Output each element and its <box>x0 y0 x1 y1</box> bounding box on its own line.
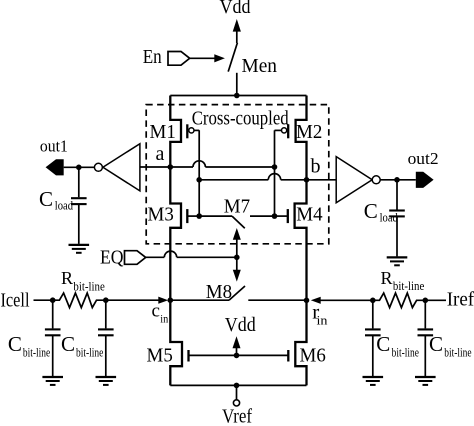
wire node b line left <box>199 179 268 181</box>
transistor M1 body <box>170 96 181 168</box>
wire hop over M2 gate drop <box>268 174 280 180</box>
wire to ground 1 <box>52 335 54 376</box>
wire bottom rail <box>170 384 306 386</box>
transistor M4 gate bar <box>287 209 289 223</box>
svg-text:Cross-coupled: Cross-coupled <box>192 108 289 129</box>
switch M8 blade <box>229 286 245 300</box>
capacitor C_bit-line 1 wire <box>52 300 54 328</box>
wire node a line left <box>140 166 193 168</box>
svg-text:bit-line: bit-line <box>23 344 50 359</box>
junction node a <box>168 164 174 170</box>
svg-text:Vdd: Vdd <box>225 314 256 336</box>
wire to ground 2 <box>105 335 107 376</box>
svg-text:bit-line: bit-line <box>393 278 425 293</box>
svg-text:R: R <box>381 268 393 288</box>
arrowhead into c_in <box>158 297 168 304</box>
wire Icell <box>34 299 53 301</box>
transistor M4 body <box>295 180 307 300</box>
transistor M5 body <box>170 300 182 385</box>
svg-text:M7: M7 <box>224 196 250 218</box>
ground (C_bit-line 2) <box>96 377 117 385</box>
capacitor C_bit-line 4 <box>418 329 434 335</box>
resistor R_bit-line left <box>53 293 106 308</box>
ground (C_bit-line 3) <box>363 377 384 385</box>
svg-text:M6: M6 <box>300 345 326 367</box>
wire C_load right to ground <box>396 216 398 256</box>
output port out2 <box>416 172 434 188</box>
arrowhead into r_in <box>311 297 321 304</box>
svg-text:C: C <box>364 199 378 223</box>
inverter right bubble <box>372 176 380 184</box>
transistor M3 body <box>170 167 181 300</box>
transistor M2 gate bar <box>287 124 289 138</box>
svg-text:Icell: Icell <box>1 290 30 312</box>
wire Vdd mid arrow shaft <box>236 348 238 355</box>
svg-text:load: load <box>380 209 399 224</box>
transistor M6 body <box>295 300 306 385</box>
junction bottom rail <box>234 383 240 389</box>
transistor M5 gate bar <box>187 350 189 362</box>
svg-text:M2: M2 <box>296 121 322 143</box>
junction right R a <box>370 298 376 304</box>
wire gate line M5-M6 <box>189 354 289 356</box>
wire M2-gate drop (node a riser) <box>274 130 276 216</box>
svg-text:C: C <box>61 332 75 356</box>
svg-text:b: b <box>311 156 321 178</box>
resistor R_bit-line right <box>373 293 426 308</box>
svg-text:M3: M3 <box>148 203 174 225</box>
junction node b / M1 gate <box>196 177 202 183</box>
wire M2 gate lead <box>275 129 282 131</box>
capacitor C_bit-line 2 wire <box>105 300 107 328</box>
wire hop over M1 gate drop <box>193 161 205 167</box>
switch Men blade <box>228 43 237 72</box>
svg-text:C: C <box>429 332 443 356</box>
capacitor C_bit-line 4 wire <box>424 300 426 328</box>
wire bubble to out2 <box>380 179 416 181</box>
transistor M6 gate bar <box>287 350 289 362</box>
svg-text:out1: out1 <box>40 137 68 156</box>
junction M7/M3 gate <box>196 213 202 219</box>
svg-text:C: C <box>39 187 53 211</box>
wire M3 gate lead <box>187 215 199 217</box>
wire r_in to right R <box>320 299 373 301</box>
svg-text:bit-line: bit-line <box>73 278 105 293</box>
arrowhead to Vdd <box>233 19 241 32</box>
inverter right triangle <box>336 157 372 203</box>
wire node b line right <box>281 179 337 181</box>
transistor M3 gate bar <box>186 209 188 223</box>
wire EQ left <box>146 256 165 258</box>
svg-text:M1: M1 <box>150 121 176 143</box>
arrowhead up to M7 <box>233 228 241 240</box>
junction node b <box>304 177 310 183</box>
svg-text:bit-line: bit-line <box>392 344 419 359</box>
svg-text:out2: out2 <box>408 149 439 168</box>
ground (C_load right) <box>387 257 408 265</box>
svg-text:in: in <box>160 311 168 325</box>
ground (C_bit-line 1) <box>42 377 63 385</box>
ground (C_load left) <box>69 245 90 253</box>
wire node a line right <box>205 166 274 168</box>
junction out2 <box>394 177 400 183</box>
wire to ground 4 <box>424 335 426 376</box>
svg-text:Vdd: Vdd <box>220 0 251 18</box>
output port out1 <box>46 159 64 175</box>
junction rail/Men <box>234 93 240 99</box>
junction left R a <box>50 297 56 303</box>
wire M1-gate drop (node b riser) <box>198 130 200 216</box>
switch M8 right wire <box>248 299 306 301</box>
wire hop over left column <box>164 251 176 257</box>
wire to ground 3 <box>372 335 374 376</box>
junction M7/M4 gate <box>272 213 278 219</box>
svg-text:Iref: Iref <box>447 288 474 310</box>
wire to Iref <box>425 299 446 301</box>
junction right R b <box>423 298 429 304</box>
capacitor C_bit-line 2 <box>98 329 114 335</box>
capacitor C_bit-line 3 wire <box>372 300 374 328</box>
junction left R b <box>103 297 109 303</box>
arrowhead En <box>214 54 225 62</box>
junction c_in <box>168 297 174 303</box>
switch M8 left wire <box>170 299 229 301</box>
inverter left bubble <box>94 163 102 171</box>
capacitor C_load left wire <box>78 167 80 197</box>
transistor M1 gate bubble <box>189 128 194 133</box>
switch M7 left wire <box>199 215 232 217</box>
input pointer En <box>168 52 190 66</box>
svg-text:EQ: EQ <box>100 247 124 269</box>
wire top rail <box>170 95 306 97</box>
capacitor C_bit-line 3 <box>365 329 381 335</box>
arrowhead down to M8 <box>233 270 241 282</box>
input pointer EQ <box>125 251 146 265</box>
wire bubble to out1 <box>64 166 95 168</box>
wire EQ right <box>177 256 237 258</box>
wire Men lower <box>236 73 238 96</box>
wire Vdd arrow shaft <box>236 30 238 44</box>
capacitor C_load right wire <box>396 180 398 210</box>
svg-text:En: En <box>143 46 162 68</box>
wire M4 gate lead <box>275 215 288 217</box>
dashed cross-coupled box <box>146 105 329 244</box>
ground (C_bit-line 4) <box>415 377 436 385</box>
transistor M1 gate bar <box>186 124 188 138</box>
junction out1 <box>76 165 82 171</box>
arrowhead to Vdd mid <box>233 336 241 348</box>
capacitor C_load left <box>71 198 87 204</box>
junction r_in <box>304 298 310 304</box>
svg-text:M5: M5 <box>147 345 173 367</box>
svg-text:R: R <box>61 268 73 288</box>
wire to Vref terminal <box>236 385 238 399</box>
junction gate line <box>234 353 240 359</box>
capacitor C_load right <box>389 211 405 217</box>
svg-text:C: C <box>376 332 390 356</box>
svg-text:in: in <box>317 314 329 328</box>
junction EQ <box>234 254 240 260</box>
terminal Vref circle <box>233 400 239 406</box>
svg-text:bit-line: bit-line <box>76 344 103 359</box>
transistor M2 body <box>296 96 307 180</box>
EQ control double arrow shaft <box>236 238 238 272</box>
switch M7 blade <box>232 216 245 228</box>
svg-text:M4: M4 <box>296 203 322 225</box>
transistor M2 gate bubble <box>282 128 287 133</box>
svg-text:a: a <box>156 143 165 165</box>
capacitor C_bit-line 1 <box>45 329 61 335</box>
svg-text:load: load <box>55 197 74 212</box>
svg-text:c: c <box>152 301 160 322</box>
wire C_load left to ground <box>78 204 80 244</box>
junction node a / M2 gate <box>272 164 278 170</box>
wire En to switch <box>190 57 215 59</box>
inverter left triangle <box>103 144 140 191</box>
wire to c_in <box>106 299 159 301</box>
svg-text:Vref: Vref <box>222 406 252 426</box>
switch M7 right wire <box>250 215 275 217</box>
svg-text:bit-line: bit-line <box>444 344 471 359</box>
wire M1 gate lead <box>194 129 199 131</box>
svg-text:C: C <box>8 332 22 356</box>
svg-text:Men: Men <box>242 55 278 77</box>
